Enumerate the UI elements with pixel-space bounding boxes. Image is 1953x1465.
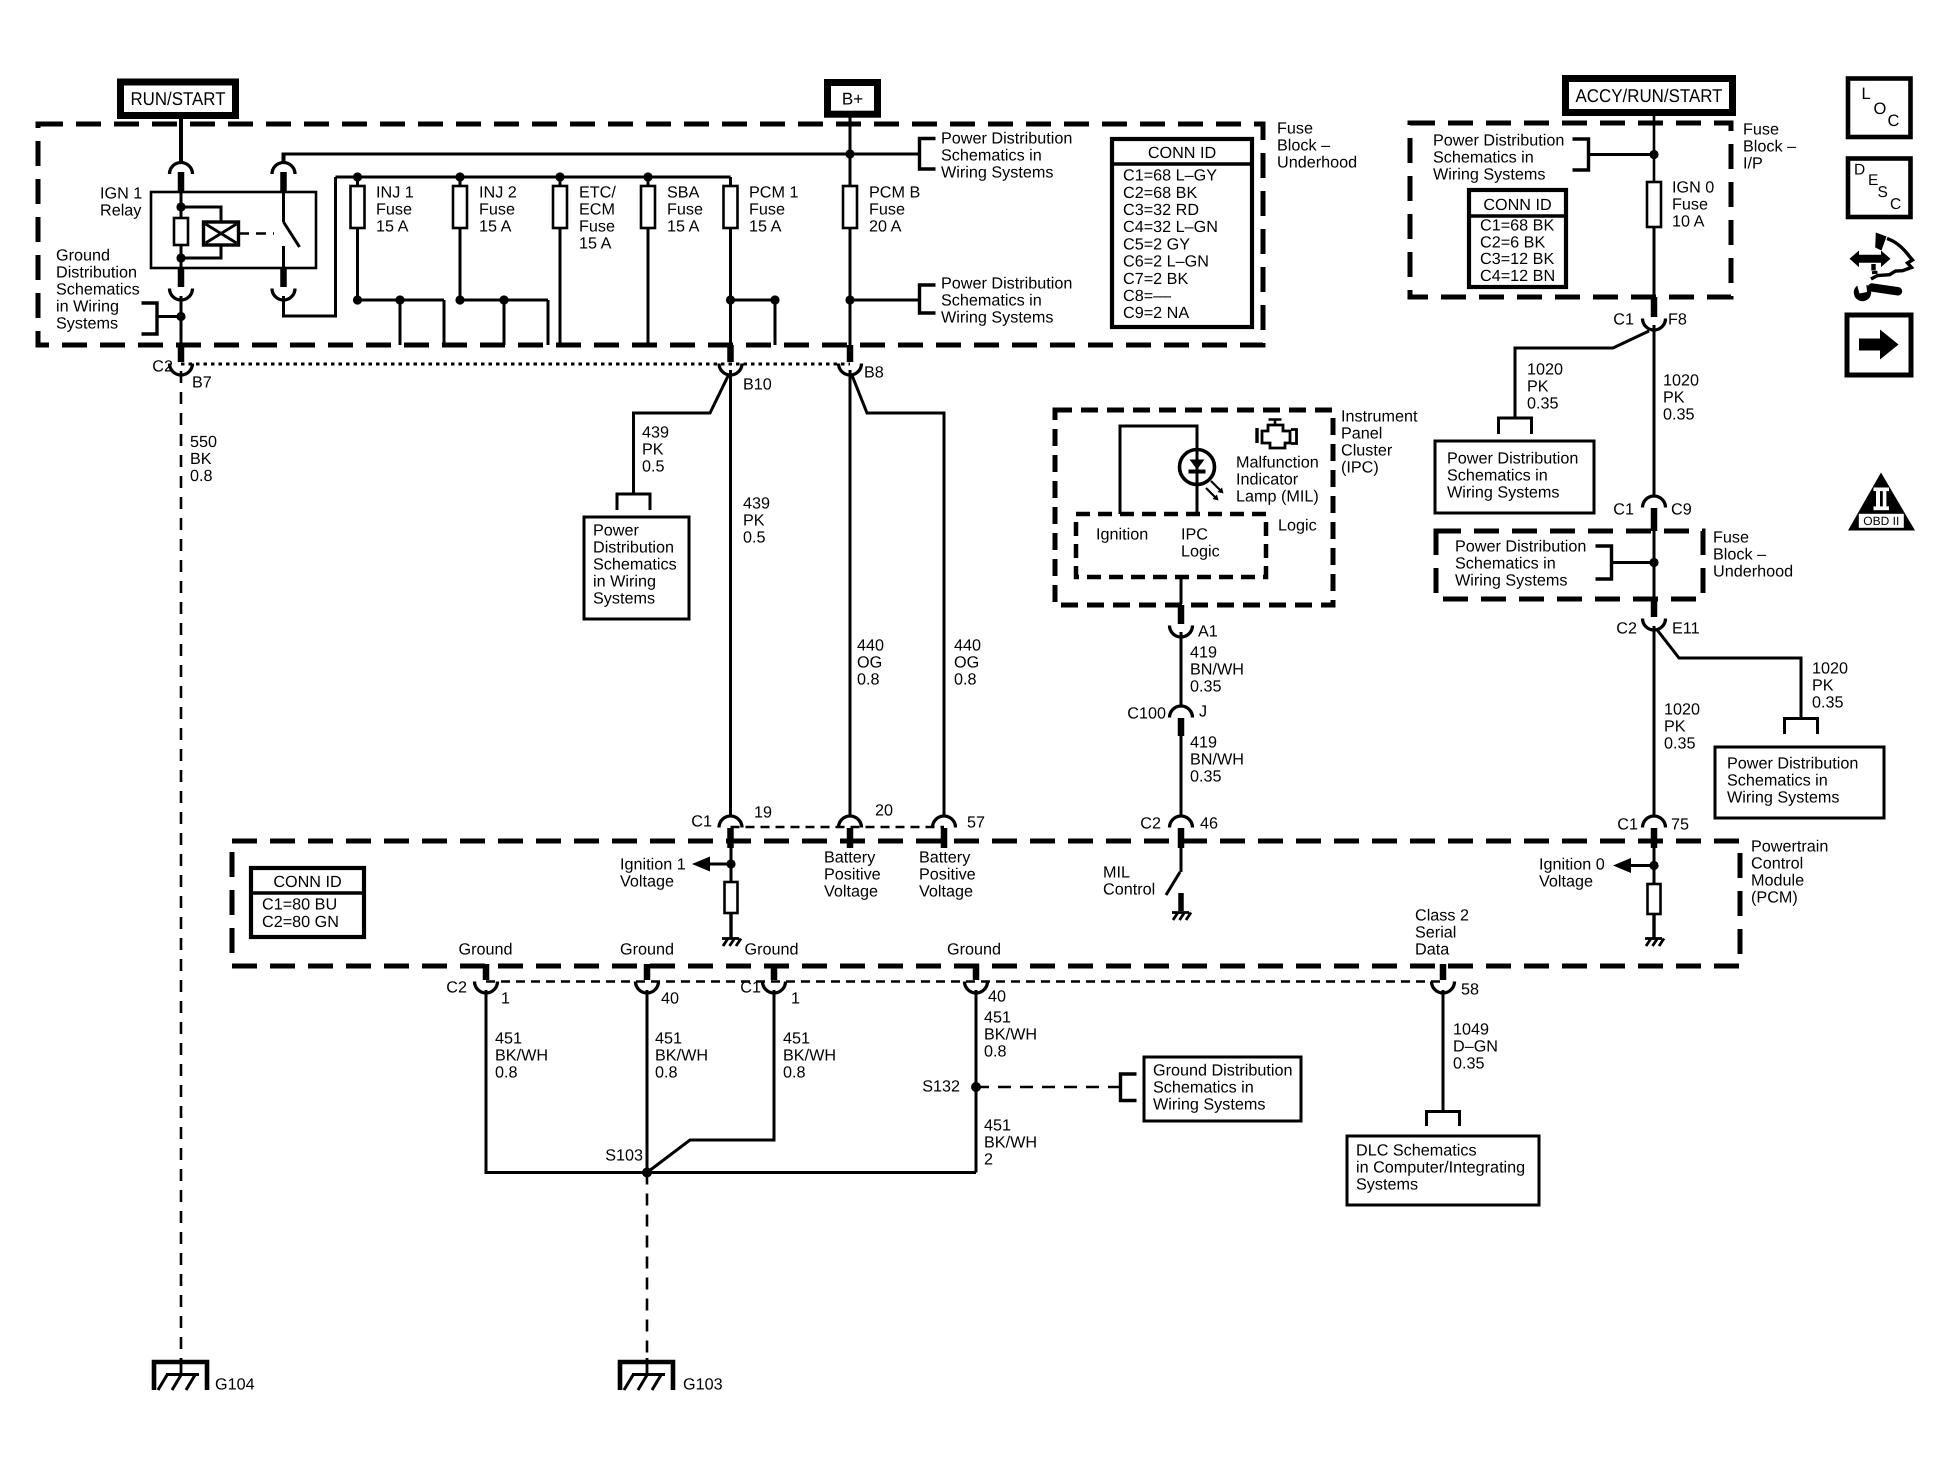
svg-text:PK: PK [642, 441, 664, 459]
svg-text:Wiring Systems: Wiring Systems [1153, 1096, 1265, 1114]
svg-text:1: 1 [791, 990, 800, 1008]
ref box power distribution right1 [1435, 441, 1594, 513]
svg-text:C8=––: C8=–– [1123, 287, 1171, 305]
svg-text:Wiring Systems: Wiring Systems [1727, 789, 1839, 807]
svg-text:Underhood: Underhood [1713, 563, 1793, 581]
svg-text:SBA: SBA [667, 184, 700, 202]
svg-text:Fuse: Fuse [1713, 529, 1749, 547]
connector C2 pin 46 [1170, 816, 1193, 828]
wire ignition0 to ground [1652, 914, 1655, 938]
svg-text:C2: C2 [1140, 815, 1161, 833]
svg-text:Lamp (MIL): Lamp (MIL) [1236, 488, 1319, 506]
wire INJ2 output [459, 228, 462, 300]
svg-text:1: 1 [501, 990, 510, 1008]
svg-text:0.5: 0.5 [743, 529, 766, 547]
mil control switch blade [1166, 872, 1180, 895]
wire coil output to C2 [157, 315, 181, 318]
svg-text:C2=80 GN: C2=80 GN [262, 913, 339, 931]
wire mil control ground stub [1178, 893, 1184, 911]
svg-text:419: 419 [1190, 734, 1217, 752]
svg-text:Power Distribution: Power Distribution [1447, 450, 1578, 468]
svg-text:CONN ID: CONN ID [1483, 196, 1551, 214]
wire ignition0 load [1653, 848, 1656, 884]
wire connector dotted row B7-B8 [181, 363, 850, 366]
svg-text:C1: C1 [1613, 501, 1634, 519]
svg-text:C2=68 BK: C2=68 BK [1123, 184, 1197, 202]
svg-text:Fuse: Fuse [376, 201, 412, 219]
svg-text:G103: G103 [683, 1376, 723, 1394]
svg-text:C: C [1888, 112, 1900, 130]
svg-text:15 A: 15 A [749, 218, 782, 236]
connector C100 J [1170, 706, 1193, 718]
svg-text:C1: C1 [740, 979, 761, 997]
splice S132 [971, 1082, 981, 1092]
svg-text:Power Distribution: Power Distribution [1433, 132, 1564, 150]
node fuse bus tap INJ2 [455, 172, 464, 181]
svg-text:Schematics in: Schematics in [1455, 555, 1556, 573]
wire S132 dashed ref [976, 1086, 1119, 1089]
svg-text:Ground: Ground [459, 941, 513, 959]
connector C2 B7 [178, 345, 185, 362]
connector B10 [727, 345, 734, 362]
svg-text:BK/WH: BK/WH [495, 1047, 548, 1065]
load resistor ignition 0 [1648, 884, 1661, 914]
svg-text:L: L [1862, 85, 1871, 103]
svg-text:Positive: Positive [824, 866, 881, 884]
svg-text:Wiring Systems: Wiring Systems [941, 309, 1053, 327]
arrow ignition 0 [1613, 858, 1631, 873]
ground G104 [154, 1362, 207, 1390]
svg-text:1020: 1020 [1527, 361, 1563, 379]
svg-text:C1=68 BK: C1=68 BK [1480, 217, 1554, 235]
icon OBD II triangle [1848, 473, 1915, 531]
svg-text:0.35: 0.35 [1812, 694, 1844, 712]
svg-text:75: 75 [1671, 816, 1689, 834]
wire bus B+ to relay switch [282, 153, 286, 165]
svg-text:C1: C1 [1613, 311, 1634, 329]
wire 1020 branch right [1657, 629, 1802, 718]
svg-text:Block –: Block – [1277, 137, 1330, 155]
wire 550 BK dashed to G104 [180, 371, 183, 1360]
wire PCM1 output [729, 228, 732, 346]
relay coil resistor [174, 218, 188, 245]
svg-text:Schematics in: Schematics in [1447, 467, 1548, 485]
svg-text:Underhood: Underhood [1277, 154, 1357, 172]
bracket ground distribution ref [142, 303, 158, 334]
svg-text:419: 419 [1190, 644, 1217, 662]
svg-text:Voltage: Voltage [620, 873, 674, 891]
node ign0 junction [1649, 150, 1658, 159]
relay solenoid X box [204, 222, 239, 245]
svg-text:0.8: 0.8 [984, 1043, 1007, 1061]
svg-text:0.8: 0.8 [783, 1064, 806, 1082]
svg-text:0.8: 0.8 [857, 671, 880, 689]
svg-text:C4=32 L–GN: C4=32 L–GN [1123, 218, 1218, 236]
connector C1 C9 [1643, 496, 1666, 508]
svg-text:19: 19 [754, 804, 772, 822]
fuse INJ 2 [453, 186, 467, 228]
connector arc relay pin 3 top [272, 163, 295, 175]
svg-text:BK/WH: BK/WH [783, 1047, 836, 1065]
connector pin 40 ground [644, 964, 651, 980]
node coil output junction [176, 312, 185, 321]
svg-text:58: 58 [1461, 981, 1479, 999]
svg-text:Control: Control [1103, 881, 1155, 899]
svg-text:A1: A1 [1198, 623, 1218, 641]
fuse block underhood box 2 [1436, 531, 1703, 599]
svg-text:Logic: Logic [1181, 543, 1220, 561]
svg-text:Module: Module [1751, 872, 1804, 890]
wire relay output riser [284, 177, 336, 316]
wire SBA fuse lead [647, 177, 650, 186]
wire relay coil bottom [180, 245, 183, 272]
svg-text:C7=2 BK: C7=2 BK [1123, 270, 1188, 288]
ref connector 1020 branch2 [1785, 719, 1818, 735]
svg-text:RUN/START: RUN/START [131, 88, 226, 109]
svg-text:0.8: 0.8 [954, 671, 977, 689]
wire B+ drop [849, 112, 852, 186]
svg-text:550: 550 [190, 433, 217, 451]
node fuse bus tap SBA [643, 172, 652, 181]
connector arc relay pin 5 bottom [280, 269, 287, 287]
svg-text:Power Distribution: Power Distribution [941, 275, 1072, 293]
arrow ignition 1 [692, 857, 710, 872]
svg-text:in Wiring: in Wiring [593, 573, 656, 591]
svg-text:0.35: 0.35 [1664, 735, 1696, 753]
wire ign0 fuse out [1653, 227, 1656, 297]
wire 439 PK branch [634, 374, 730, 494]
mil lamp light arrows [1206, 481, 1221, 498]
svg-text:in Wiring: in Wiring [56, 298, 119, 316]
ref connector 439 branch [617, 494, 650, 510]
svg-text:0.35: 0.35 [1190, 768, 1222, 786]
svg-text:DLC Schematics: DLC Schematics [1356, 1142, 1477, 1160]
svg-text:C9: C9 [1671, 501, 1692, 519]
svg-text:CONN ID: CONN ID [273, 873, 341, 891]
connector pin 58 class2 [1440, 964, 1447, 980]
svg-text:Serial: Serial [1415, 924, 1456, 942]
ref connector DLC [1427, 1112, 1460, 1127]
fuse IGN 0 [1647, 182, 1661, 227]
svg-text:Malfunction: Malfunction [1236, 454, 1319, 472]
svg-text:C1=80 BU: C1=80 BU [262, 896, 337, 914]
wire 440 OG main [849, 370, 852, 817]
icon forward arrow box [1847, 315, 1911, 375]
wire E11 to 75 [1653, 626, 1656, 817]
wire ground pin1b to S103 [647, 990, 774, 1173]
svg-text:40: 40 [661, 990, 679, 1008]
wire bus B+ horizontal [284, 153, 919, 156]
wire ground connector dotted row [486, 980, 1443, 983]
connector C1 pin 1 ground [771, 964, 778, 980]
svg-text:C2=6 BK: C2=6 BK [1480, 233, 1545, 251]
wire ground pin40b to S103 [975, 990, 978, 1173]
svg-text:15 A: 15 A [479, 218, 512, 236]
svg-text:Fuse: Fuse [869, 201, 905, 219]
svg-text:57: 57 [967, 814, 985, 832]
svg-text:Systems: Systems [1356, 1176, 1418, 1194]
svg-text:Schematics: Schematics [593, 556, 677, 574]
svg-text:440: 440 [954, 637, 981, 655]
svg-text:(IPC): (IPC) [1341, 459, 1379, 477]
svg-text:C3=32 RD: C3=32 RD [1123, 201, 1199, 219]
wire SBA output [647, 228, 650, 345]
wire INJ1 fuse lead [356, 177, 359, 186]
svg-text:1020: 1020 [1663, 372, 1699, 390]
wire relay actuation dashed [239, 232, 274, 235]
wire fuse bus [336, 176, 731, 179]
svg-text:15 A: 15 A [376, 218, 409, 236]
svg-text:20 A: 20 A [869, 218, 902, 236]
node B+ junction [845, 149, 854, 158]
svg-text:BN/WH: BN/WH [1190, 661, 1244, 679]
conn id box underhood [1112, 139, 1252, 327]
svg-text:0.5: 0.5 [642, 458, 665, 476]
svg-text:MIL: MIL [1103, 864, 1130, 882]
svg-text:Voltage: Voltage [1539, 873, 1593, 891]
svg-text:IGN 1: IGN 1 [100, 185, 142, 203]
ground internal ignition 1 [722, 939, 741, 947]
svg-text:439: 439 [642, 424, 669, 442]
connector pin 20 [839, 816, 862, 828]
svg-text:Ground: Ground [56, 247, 110, 265]
svg-text:15 A: 15 A [579, 235, 612, 253]
mil lamp LED [1180, 450, 1215, 485]
wire ignition1 load [730, 848, 733, 882]
svg-text:Power: Power [593, 522, 639, 540]
svg-text:0.35: 0.35 [1527, 395, 1559, 413]
svg-text:0.35: 0.35 [1663, 406, 1695, 424]
svg-text:PK: PK [743, 512, 765, 530]
wire 439 PK main [729, 370, 732, 817]
svg-text:Logic: Logic [1278, 517, 1317, 535]
svg-text:Ignition 1: Ignition 1 [620, 856, 686, 874]
svg-text:CONN ID: CONN ID [1148, 144, 1216, 162]
svg-text:15 A: 15 A [667, 218, 700, 236]
svg-text:OBD II: OBD II [1863, 514, 1899, 528]
svg-text:Voltage: Voltage [824, 883, 878, 901]
svg-text:1020: 1020 [1812, 660, 1848, 678]
svg-text:451: 451 [783, 1030, 810, 1048]
svg-text:F8: F8 [1668, 311, 1687, 329]
svg-text:0.8: 0.8 [655, 1064, 678, 1082]
svg-text:OG: OG [954, 654, 979, 672]
wire INJ1 output [356, 228, 359, 300]
conn id box PCM [251, 868, 364, 937]
svg-text:PCM B: PCM B [869, 184, 920, 202]
svg-text:Power Distribution: Power Distribution [941, 130, 1072, 148]
svg-text:ETC/: ETC/ [579, 184, 616, 202]
svg-text:Ignition: Ignition [1096, 526, 1148, 544]
wire relay switch output [282, 246, 285, 268]
svg-text:Schematics in: Schematics in [1433, 149, 1534, 167]
node coil top junction [176, 202, 185, 211]
svg-text:440: 440 [857, 637, 884, 655]
node coil bottom junction [176, 253, 185, 262]
wire relay coil top [180, 192, 183, 218]
svg-text:PK: PK [1663, 389, 1685, 407]
ground internal ignition 0 [1645, 939, 1664, 947]
svg-text:(PCM): (PCM) [1751, 889, 1798, 907]
connector C1 F8 [1651, 297, 1658, 317]
svg-text:BK/WH: BK/WH [655, 1047, 708, 1065]
svg-text:O: O [1874, 100, 1887, 118]
svg-text:Class 2: Class 2 [1415, 907, 1469, 925]
svg-text:Cluster: Cluster [1341, 442, 1393, 460]
svg-text:C3=12 BK: C3=12 BK [1480, 250, 1554, 268]
wire C100 to C2-46 [1180, 734, 1183, 817]
wire relay switch contact [282, 191, 285, 222]
svg-text:Ignition 0: Ignition 0 [1539, 856, 1605, 874]
ref box DLC schematics [1347, 1136, 1539, 1205]
wire S103 to G103 dashed [646, 1173, 649, 1361]
wire pcm pin dotted row [731, 826, 945, 829]
svg-text:PK: PK [1527, 378, 1549, 396]
node RUN/START [117, 79, 239, 120]
node underhood junction [1649, 558, 1658, 567]
connector B8 [847, 345, 854, 362]
svg-text:1020: 1020 [1664, 701, 1700, 719]
wire mil control switch [1180, 848, 1183, 872]
powertrain control module box [232, 841, 1740, 966]
svg-text:Ground Distribution: Ground Distribution [1153, 1062, 1292, 1080]
svg-text:1049: 1049 [1453, 1021, 1489, 1039]
svg-text:C100: C100 [1127, 705, 1166, 723]
svg-text:Fuse: Fuse [479, 201, 515, 219]
svg-text:C2: C2 [446, 979, 467, 997]
svg-text:2: 2 [984, 1151, 993, 1169]
wire PCM1 fuse lead [729, 177, 732, 186]
svg-text:Power Distribution: Power Distribution [1455, 538, 1586, 556]
wire coil parallel branch [181, 207, 221, 222]
svg-text:ACCY/RUN/START: ACCY/RUN/START [1576, 85, 1723, 106]
svg-text:Ground: Ground [947, 941, 1001, 959]
connector C1 pin 19 [719, 816, 742, 828]
svg-text:10 A: 10 A [1672, 213, 1705, 231]
svg-text:C5=2 GY: C5=2 GY [1123, 235, 1190, 253]
instrument panel cluster box [1055, 410, 1333, 605]
svg-text:Relay: Relay [100, 202, 142, 220]
splice S103 [642, 1168, 652, 1178]
svg-text:Control: Control [1751, 855, 1803, 873]
svg-text:INJ 2: INJ 2 [479, 184, 517, 202]
wire pin58 to DLC ref [1442, 990, 1445, 1111]
svg-text:0.8: 0.8 [190, 467, 213, 485]
svg-text:Systems: Systems [56, 315, 118, 333]
svg-text:E11: E11 [1672, 620, 1700, 638]
node fuse bus tap INJ1 [353, 172, 362, 181]
svg-text:Powertrain: Powertrain [1751, 838, 1828, 856]
relay switch blade [284, 222, 300, 247]
svg-text:BK/WH: BK/WH [984, 1026, 1037, 1044]
svg-text:S: S [1878, 184, 1888, 201]
wire ground pin40 to S103 [646, 990, 649, 1173]
conn id box IP [1469, 190, 1566, 287]
svg-text:I/P: I/P [1743, 155, 1763, 173]
svg-text:D: D [1854, 162, 1865, 179]
svg-text:Fuse: Fuse [1743, 121, 1779, 139]
ref box power distribution right2 [1715, 747, 1884, 818]
svg-text:C9=2 NA: C9=2 NA [1123, 304, 1189, 322]
svg-text:Schematics in: Schematics in [941, 147, 1042, 165]
svg-text:Block –: Block – [1743, 138, 1796, 156]
engine icon [1255, 428, 1258, 443]
node fuse bus tap ETC [555, 172, 564, 181]
svg-text:C1: C1 [1617, 816, 1638, 834]
svg-text:Panel: Panel [1341, 425, 1382, 443]
svg-text:J: J [1199, 703, 1207, 721]
ref connector 1020 branch1 [1499, 418, 1532, 434]
fuse SBA [641, 186, 655, 228]
svg-text:Schematics in: Schematics in [1153, 1079, 1254, 1097]
wire ETC output [559, 228, 562, 345]
svg-text:G104: G104 [215, 1376, 255, 1394]
svg-text:Battery: Battery [919, 849, 971, 867]
svg-text:Schematics: Schematics [56, 281, 140, 299]
svg-text:C1=68 L–GY: C1=68 L–GY [1123, 167, 1217, 185]
svg-text:C2: C2 [152, 358, 173, 376]
svg-text:Schematics in: Schematics in [1727, 772, 1828, 790]
svg-text:Positive: Positive [919, 866, 976, 884]
ref box ground distribution [1144, 1057, 1301, 1121]
svg-text:439: 439 [743, 495, 770, 513]
svg-text:PK: PK [1812, 677, 1834, 695]
connector arc relay pin 2 bottom [178, 269, 185, 287]
svg-text:Wiring Systems: Wiring Systems [941, 164, 1053, 182]
svg-text:Fuse: Fuse [749, 201, 785, 219]
wire PCMB output [849, 228, 852, 346]
svg-text:451: 451 [495, 1030, 522, 1048]
svg-text:IGN 0: IGN 0 [1672, 179, 1714, 197]
svg-text:Fuse: Fuse [1672, 196, 1708, 214]
bracket ground distribution ref 2 [1121, 1074, 1137, 1101]
svg-text:46: 46 [1200, 815, 1218, 833]
fuse ETC/ECM [553, 186, 567, 228]
wire INJ2 fuse lead [459, 177, 462, 186]
ipc logic inner box [1076, 514, 1266, 577]
svg-text:Voltage: Voltage [919, 883, 973, 901]
wire bracket to ign0 [1589, 153, 1655, 156]
connector C2 pin 1 ground [483, 964, 490, 980]
svg-text:Power Distribution: Power Distribution [1727, 755, 1858, 773]
svg-text:PK: PK [1664, 718, 1686, 736]
connector pin 40b ground [973, 964, 980, 980]
connector A1 [1178, 605, 1185, 624]
svg-text:S103: S103 [605, 1147, 643, 1165]
svg-text:ECM: ECM [579, 201, 615, 219]
wire 1020 branch left [1515, 331, 1649, 418]
svg-text:Fuse: Fuse [579, 218, 615, 236]
svg-text:B10: B10 [743, 376, 772, 394]
svg-text:Ground: Ground [745, 941, 799, 959]
svg-text:BK/WH: BK/WH [984, 1134, 1037, 1152]
svg-text:S132: S132 [922, 1078, 960, 1096]
svg-text:in Computer/Integrating: in Computer/Integrating [1356, 1159, 1525, 1177]
svg-text:IPC: IPC [1181, 526, 1208, 544]
wire A1 to C100 [1180, 632, 1183, 707]
svg-text:Ground: Ground [620, 941, 674, 959]
svg-text:Wiring Systems: Wiring Systems [1455, 572, 1567, 590]
svg-text:B+: B+ [842, 90, 863, 109]
node B+ [824, 79, 881, 118]
svg-text:B7: B7 [192, 374, 212, 392]
svg-text:Block –: Block – [1713, 546, 1766, 564]
bracket power distribution ref 4 [1596, 546, 1612, 579]
fuse block IP box [1410, 123, 1731, 297]
wire ACCY drop [1653, 112, 1656, 182]
ground G103 [620, 1362, 673, 1390]
svg-text:B8: B8 [864, 364, 884, 382]
